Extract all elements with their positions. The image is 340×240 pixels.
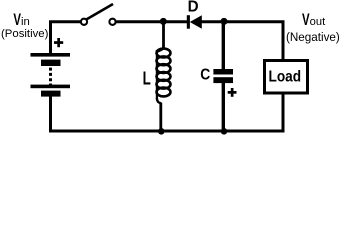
wire diode to top-right corner, down to load: [201, 22, 283, 60]
node junction bottom of capacitor: [221, 128, 228, 135]
node junction top of capacitor: [221, 18, 228, 25]
battery B1 plus sign: [54, 38, 63, 47]
node junction top-left of inductor: [160, 18, 167, 25]
svg-text:C: C: [200, 67, 210, 84]
wire capacitor bottom to rail: [222, 83, 225, 131]
diode D: [187, 15, 202, 29]
wire top-left from battery to switch: [51, 22, 81, 55]
wire inductor bottom to rail: [159, 103, 162, 132]
capacitor C plates: [213, 69, 233, 83]
capacitor plus sign: [228, 88, 237, 97]
svg-text:(Positive): (Positive): [1, 28, 48, 40]
switch S1: [81, 4, 116, 25]
svg-text:(Negative): (Negative): [286, 30, 340, 44]
svg-text:Load: Load: [269, 69, 302, 86]
svg-text:in: in: [21, 16, 30, 28]
svg-text:out: out: [310, 16, 326, 28]
node junction bottom of inductor: [158, 128, 165, 135]
battery B1: [31, 53, 71, 97]
svg-text:D: D: [188, 0, 199, 15]
wire battery bottom to bottom rail: [51, 96, 285, 131]
load box: [265, 61, 308, 94]
inductor L coil: [157, 47, 171, 103]
wire capacitor top: [222, 22, 225, 70]
wire top junction down to inductor: [162, 22, 165, 48]
svg-text:V: V: [302, 11, 310, 29]
wire bottom rail up to load: [282, 93, 285, 131]
svg-text:L: L: [143, 68, 151, 88]
svg-text:V: V: [13, 11, 21, 29]
wire switch to diode: [116, 20, 188, 23]
